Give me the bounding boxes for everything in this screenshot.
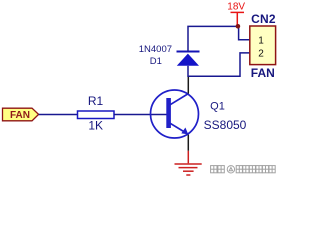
svg-text:1N4007: 1N4007 (139, 44, 172, 55)
diode anode pin (187, 66, 189, 77)
value SS8050 (204, 118, 247, 132)
ground (175, 151, 202, 175)
label Q1 (210, 100, 225, 112)
pin 2 (258, 48, 264, 59)
wire pin2 to collector node (188, 53, 250, 76)
diode D1 (177, 52, 200, 66)
value 1K (88, 119, 103, 133)
connector CN2 (250, 26, 276, 65)
watermark (211, 166, 276, 173)
label FAN (connector) (251, 66, 275, 80)
resistor R1 (78, 111, 115, 119)
svg-text:D1: D1 (150, 56, 162, 67)
svg-text:FAN: FAN (10, 110, 30, 121)
net label FAN (3, 108, 39, 121)
label R1 (88, 94, 104, 108)
transistor Q1 (151, 90, 199, 138)
wire tag to R1 (39, 114, 78, 116)
emitter pin (187, 135, 189, 151)
svg-text:FAN: FAN (251, 66, 275, 80)
diode cathode pin (187, 40, 189, 52)
svg-text:SS8050: SS8050 (204, 118, 247, 132)
svg-text:CN2: CN2 (251, 12, 276, 26)
wire diode to node (188, 26, 238, 40)
svg-text:Q1: Q1 (210, 100, 225, 112)
pin 1 (258, 35, 264, 46)
svg-text:2: 2 (258, 48, 264, 59)
node junction (236, 24, 241, 29)
wire node to pin1 (239, 26, 250, 39)
svg-text:1: 1 (258, 35, 264, 46)
wire R1 to Q1 base (114, 114, 167, 116)
label CN2 (251, 12, 276, 26)
svg-text:18V: 18V (227, 2, 245, 13)
power 18V (227, 2, 245, 27)
collector pin (187, 77, 189, 94)
svg-text:1K: 1K (88, 119, 103, 133)
label 1N4007 (139, 44, 172, 55)
label D1 (150, 56, 162, 67)
svg-text:R1: R1 (88, 94, 104, 108)
